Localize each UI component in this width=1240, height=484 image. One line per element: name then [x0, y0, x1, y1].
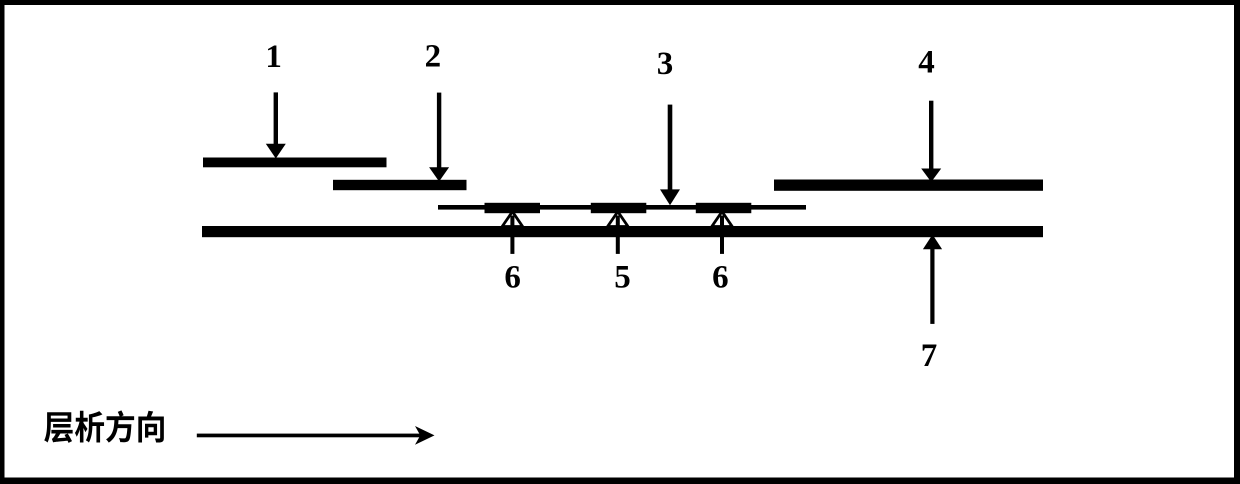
membrane line 3: [438, 205, 806, 210]
arrow 6 left up: [502, 212, 522, 254]
control pad 5: [591, 203, 647, 213]
svg-text:2: 2: [425, 39, 442, 75]
direction arrow: [197, 426, 435, 445]
border frame bottom: [0, 478, 1240, 484]
arrow 3: [660, 105, 680, 206]
arrow 5 up: [608, 212, 628, 254]
backing plate 7: [202, 226, 1043, 237]
test pad right 6: [696, 203, 752, 213]
arrow 2: [429, 93, 449, 182]
bar 1 sample pad: [203, 158, 387, 168]
svg-text:6: 6: [504, 260, 521, 296]
arrow 6 right up: [712, 212, 732, 254]
arrow 7 up: [923, 235, 942, 324]
test pad left 6: [485, 203, 541, 213]
svg-text:4: 4: [918, 44, 935, 80]
chromatography direction text: [44, 410, 164, 443]
arrow 1: [266, 92, 286, 158]
svg-text:7: 7: [921, 338, 938, 374]
svg-text:3: 3: [657, 46, 674, 82]
border frame left: [0, 0, 5, 484]
bar 2 conjugate pad: [333, 180, 467, 190]
svg-text:6: 6: [712, 260, 729, 296]
border frame right: [1234, 0, 1240, 484]
svg-text:1: 1: [265, 39, 282, 75]
border frame top: [0, 0, 1240, 5]
svg-text:5: 5: [614, 260, 631, 296]
bar 4 absorbent pad: [774, 180, 1043, 191]
arrow 4: [921, 101, 941, 182]
